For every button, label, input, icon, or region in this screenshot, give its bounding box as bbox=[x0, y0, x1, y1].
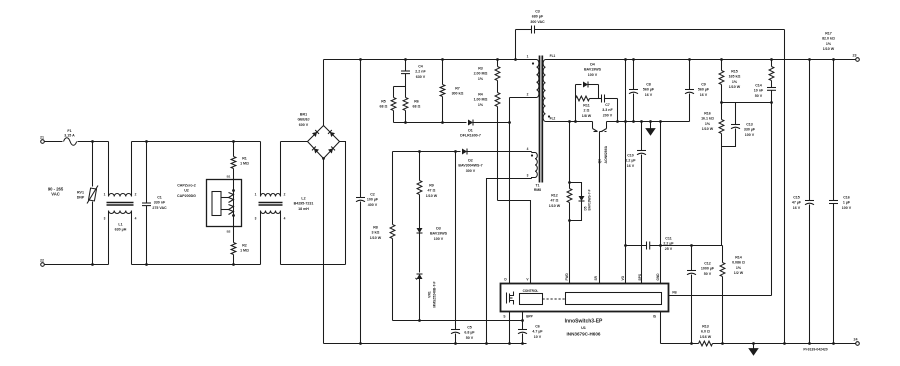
svg-text:RM8: RM8 bbox=[534, 188, 541, 192]
svg-text:630 µH: 630 µH bbox=[115, 228, 127, 232]
wire primary return rail bbox=[324, 343, 527, 345]
svg-text:B1: B1 bbox=[227, 175, 231, 179]
svg-text:F1: F1 bbox=[67, 129, 71, 133]
svg-text:3: 3 bbox=[255, 217, 257, 221]
svg-text:B2: B2 bbox=[227, 230, 231, 234]
svg-text:DNP: DNP bbox=[77, 196, 85, 200]
choke L1 lead 4 bbox=[132, 211, 137, 265]
diode D3 bbox=[417, 227, 448, 273]
svg-text:1/10 W: 1/10 W bbox=[702, 127, 714, 131]
svg-text:330 nF: 330 nF bbox=[154, 201, 166, 205]
wire B+ rail bbox=[324, 59, 537, 61]
svg-text:BPP: BPP bbox=[526, 315, 533, 319]
svg-text:D1: D1 bbox=[468, 129, 473, 133]
svg-text:4: 4 bbox=[527, 147, 529, 151]
transformer T1 pin 2 lead bbox=[510, 93, 537, 98]
svg-text:10 nF: 10 nF bbox=[754, 89, 764, 93]
capacitor C7 bbox=[602, 95, 618, 118]
wire J1 to fuse bbox=[45, 141, 63, 143]
svg-text:18 mH: 18 mH bbox=[298, 207, 309, 211]
capacitor C15 bbox=[792, 58, 814, 345]
svg-text:16 V: 16 V bbox=[793, 206, 801, 210]
svg-text:R11: R11 bbox=[583, 104, 589, 108]
svg-text:R5: R5 bbox=[381, 100, 386, 104]
svg-text:2: 2 bbox=[135, 193, 137, 197]
svg-text:680 pF: 680 pF bbox=[532, 15, 544, 19]
choke L1 core bbox=[107, 203, 134, 206]
svg-text:C13: C13 bbox=[746, 123, 753, 127]
label FL2 bbox=[550, 117, 556, 121]
wire FB line bbox=[771, 103, 773, 296]
transformer T1 primary winding bbox=[532, 60, 539, 98]
pin D label bbox=[504, 278, 507, 282]
svg-text:C15: C15 bbox=[793, 196, 800, 200]
svg-text:4.7 µF: 4.7 µF bbox=[532, 330, 543, 334]
svg-text:FB: FB bbox=[672, 291, 677, 295]
svg-text:630 V: 630 V bbox=[416, 75, 426, 79]
svg-text:600 V: 600 V bbox=[299, 123, 309, 127]
svg-text:23: 23 bbox=[853, 54, 857, 58]
choke L1 bottom winding bbox=[109, 211, 132, 214]
svg-text:1/2 W: 1/2 W bbox=[734, 271, 744, 275]
resistor R14 bbox=[720, 246, 745, 345]
svg-text:6.8 µF: 6.8 µF bbox=[464, 331, 475, 335]
capacitor C2 bbox=[356, 58, 379, 345]
wire snubber right bbox=[598, 85, 600, 99]
svg-text:BAV19WS-7-F: BAV19WS-7-F bbox=[588, 189, 592, 210]
svg-text:CAPZero-2: CAPZero-2 bbox=[177, 184, 196, 188]
svg-text:R2: R2 bbox=[242, 244, 247, 248]
wire FWD lower bbox=[569, 221, 571, 284]
svg-text:25 V: 25 V bbox=[665, 247, 673, 251]
capacitor C3 bbox=[516, 10, 785, 34]
svg-text:BAV3004WS-7: BAV3004WS-7 bbox=[458, 164, 482, 168]
svg-text:FL2: FL2 bbox=[550, 117, 556, 121]
svg-text:CAP200DG: CAP200DG bbox=[177, 194, 196, 198]
pin BPP bbox=[523, 312, 534, 321]
svg-text:VO: VO bbox=[621, 275, 625, 280]
svg-text:InnoSwitch3-EP: InnoSwitch3-EP bbox=[565, 319, 603, 325]
resistor R5 bbox=[380, 87, 396, 123]
wire GND pin line bbox=[659, 120, 662, 283]
choke L1 lead 3 bbox=[104, 211, 109, 265]
wire bias line bbox=[393, 150, 461, 153]
pin GND bbox=[656, 273, 660, 281]
svg-text:R13: R13 bbox=[702, 325, 709, 329]
bridge BR1 diode BR bbox=[328, 146, 335, 153]
svg-text:1 MΩ: 1 MΩ bbox=[240, 162, 249, 166]
svg-text:300 kΩ: 300 kΩ bbox=[452, 92, 464, 96]
label L2 bbox=[294, 197, 314, 211]
bridge BR1 diamond bbox=[308, 126, 340, 159]
svg-text:1: 1 bbox=[104, 193, 106, 197]
svg-text:PI-9139-042420: PI-9139-042420 bbox=[803, 348, 827, 352]
svg-text:1/10 W: 1/10 W bbox=[729, 85, 741, 89]
svg-text:C8: C8 bbox=[646, 83, 651, 87]
svg-text:1%: 1% bbox=[736, 266, 742, 270]
svg-text:GND: GND bbox=[656, 273, 660, 281]
svg-text:100 V: 100 V bbox=[745, 133, 755, 137]
svg-text:C16: C16 bbox=[843, 196, 850, 200]
resistor R13 bbox=[699, 325, 713, 346]
varistor RV1 bbox=[77, 142, 98, 265]
wire FL1 output rail bbox=[546, 59, 856, 61]
svg-text:VAC: VAC bbox=[51, 192, 60, 197]
CAPZero U2 internals bbox=[212, 175, 235, 234]
choke L2 lead 2 bbox=[281, 142, 286, 197]
svg-text:Q1: Q1 bbox=[598, 159, 602, 164]
capacitor C1 bbox=[142, 140, 167, 266]
svg-text:R4: R4 bbox=[478, 93, 483, 97]
resistor R1 bbox=[231, 142, 249, 180]
capacitor C8 bbox=[629, 58, 655, 123]
svg-text:275 VAC: 275 VAC bbox=[152, 206, 167, 210]
wire drain line D pin bbox=[509, 98, 511, 284]
choke L2 bottom winding bbox=[261, 211, 281, 214]
svg-text:2.2 µF: 2.2 µF bbox=[663, 242, 674, 246]
svg-text:16 V: 16 V bbox=[627, 164, 635, 168]
svg-text:U1: U1 bbox=[581, 326, 586, 330]
svg-text:6.0 Ω: 6.0 Ω bbox=[701, 330, 710, 334]
transformer T1 secondary winding bbox=[543, 60, 550, 122]
bridge BR1 diode BL bbox=[312, 146, 319, 153]
IC U1 mosfet glyph bbox=[507, 292, 514, 305]
transformer T1 pin 3 lead bbox=[527, 174, 535, 179]
svg-text:R6: R6 bbox=[414, 100, 419, 104]
svg-text:1.00 MΩ: 1.00 MΩ bbox=[474, 98, 488, 102]
svg-text:R8: R8 bbox=[373, 226, 378, 230]
bridge BR1 diode TL bbox=[312, 130, 319, 137]
svg-text:MMSZ5248B-7-F: MMSZ5248B-7-F bbox=[433, 281, 437, 307]
wire BPS pin line bbox=[637, 120, 646, 283]
svg-text:4: 4 bbox=[135, 217, 137, 221]
svg-text:330 µF: 330 µF bbox=[744, 128, 756, 132]
node R1 top bbox=[232, 140, 235, 143]
svg-text:200 V: 200 V bbox=[603, 113, 613, 117]
svg-text:560 µF: 560 µF bbox=[643, 88, 655, 92]
zener VR1 bbox=[416, 274, 437, 322]
svg-text:C3: C3 bbox=[535, 10, 540, 14]
pin V label bbox=[526, 278, 529, 282]
resistor R6 bbox=[403, 87, 420, 124]
svg-text:2.00 MΩ: 2.00 MΩ bbox=[474, 72, 488, 76]
pin IS bbox=[653, 312, 661, 344]
gnd symbol output bbox=[749, 342, 758, 355]
svg-text:300 V: 300 V bbox=[466, 169, 476, 173]
wire secondary return rail right bbox=[713, 343, 856, 345]
svg-text:R17: R17 bbox=[825, 32, 832, 36]
label PI number bbox=[803, 348, 827, 352]
svg-text:R1: R1 bbox=[242, 157, 247, 161]
svg-text:50 V: 50 V bbox=[704, 272, 712, 276]
wire fuse to L1 bbox=[78, 141, 109, 143]
pin FB bbox=[669, 291, 772, 296]
capacitor C9 bbox=[685, 58, 710, 121]
svg-text:1000 µF: 1000 µF bbox=[701, 267, 715, 271]
wire bias return bbox=[485, 179, 531, 345]
IC U1 box bbox=[501, 284, 669, 312]
svg-text:B4295-7231: B4295-7231 bbox=[294, 202, 314, 206]
label U1 bbox=[565, 319, 603, 337]
terminal J1 (21) bbox=[40, 136, 44, 144]
svg-text:3.3 nF: 3.3 nF bbox=[602, 108, 613, 112]
resistor R9 bbox=[417, 152, 438, 229]
svg-text:U2: U2 bbox=[184, 189, 189, 193]
svg-text:300 VAC: 300 VAC bbox=[530, 20, 545, 24]
SR FET Q1 bbox=[593, 122, 609, 284]
svg-text:3.15 A: 3.15 A bbox=[64, 134, 75, 138]
label C10 bbox=[625, 154, 636, 168]
wire bottom rail L1 to L2 bbox=[132, 264, 261, 266]
svg-text:C6: C6 bbox=[535, 325, 540, 329]
svg-text:400 V: 400 V bbox=[368, 203, 378, 207]
capacitor C14 bbox=[754, 81, 776, 103]
svg-text:D4: D4 bbox=[590, 63, 595, 67]
svg-text:4: 4 bbox=[284, 217, 286, 221]
wire snubber left bbox=[575, 85, 577, 122]
wire top rail L1 to L2 bbox=[132, 141, 261, 143]
bridge BR1 diode TR bbox=[328, 130, 335, 137]
svg-text:1%: 1% bbox=[826, 42, 832, 46]
choke L2 top winding bbox=[261, 194, 281, 197]
svg-text:16 V: 16 V bbox=[645, 93, 653, 97]
svg-text:82.0 kΩ: 82.0 kΩ bbox=[822, 37, 835, 41]
svg-text:D: D bbox=[504, 278, 507, 282]
svg-text:INN3679C-H606: INN3679C-H606 bbox=[567, 332, 601, 337]
svg-text:100 V: 100 V bbox=[588, 73, 598, 77]
node input top bbox=[91, 140, 94, 143]
svg-text:BR1: BR1 bbox=[300, 113, 307, 117]
resistor R15 bbox=[719, 58, 741, 104]
svg-text:AON6286A: AON6286A bbox=[604, 145, 608, 163]
svg-text:1%: 1% bbox=[732, 80, 738, 84]
resistor R11 bbox=[576, 96, 602, 118]
svg-text:C7: C7 bbox=[605, 103, 610, 107]
svg-text:GBU8J: GBU8J bbox=[298, 118, 310, 122]
gnd symbol secondary bus bbox=[646, 120, 655, 135]
capacitor C16 bbox=[829, 58, 852, 345]
svg-text:16 V: 16 V bbox=[700, 93, 708, 97]
svg-text:C9: C9 bbox=[701, 83, 706, 87]
svg-text:68 Ω: 68 Ω bbox=[413, 105, 421, 109]
IC U1 secondary block bbox=[566, 293, 662, 305]
transformer T1 core bbox=[540, 56, 543, 183]
capacitor C5 bbox=[451, 152, 475, 345]
resistor R2 bbox=[231, 227, 249, 266]
svg-text:1/10 W: 1/10 W bbox=[549, 204, 561, 208]
transformer T1 bias winding bbox=[531, 153, 537, 178]
choke L1 lead 2 bbox=[132, 142, 137, 197]
svg-text:3: 3 bbox=[527, 174, 529, 178]
wire J2 bottom rail bbox=[45, 264, 109, 266]
label L1 bbox=[115, 223, 127, 232]
resistor R4 bbox=[474, 93, 500, 201]
svg-text:2.2 nF: 2.2 nF bbox=[415, 70, 426, 74]
choke L1 lead 1 bbox=[104, 142, 109, 197]
svg-text:C2: C2 bbox=[370, 193, 375, 197]
diode D2 bbox=[458, 149, 531, 173]
label T1 bbox=[534, 184, 541, 193]
svg-text:1 µF: 1 µF bbox=[843, 201, 851, 205]
svg-text:1/10 W: 1/10 W bbox=[370, 236, 382, 240]
svg-text:2: 2 bbox=[284, 193, 286, 197]
wire bridge right vertex drop bbox=[340, 142, 346, 265]
wire snubber to gnd bbox=[616, 99, 619, 123]
wire bridge bottom to gnd rail bbox=[322, 157, 325, 343]
svg-text:C10: C10 bbox=[627, 154, 634, 158]
svg-text:1/10 W: 1/10 W bbox=[823, 47, 835, 51]
svg-text:3 kΩ: 3 kΩ bbox=[372, 231, 380, 235]
svg-text:24: 24 bbox=[854, 338, 858, 342]
wire R5 R6 top bar bbox=[394, 86, 406, 88]
label FL1 bbox=[550, 54, 556, 58]
svg-text:D2: D2 bbox=[468, 159, 473, 163]
svg-text:1 MΩ: 1 MΩ bbox=[240, 249, 249, 253]
svg-text:R9: R9 bbox=[429, 184, 434, 188]
label BR1 bbox=[298, 113, 310, 127]
svg-text:0.086 Ω: 0.086 Ω bbox=[732, 261, 745, 265]
svg-text:C4: C4 bbox=[418, 65, 423, 69]
svg-text:50 V: 50 V bbox=[755, 94, 763, 98]
wire C3 left drop bbox=[514, 30, 517, 61]
wire bridge top to B+ rail bbox=[323, 60, 325, 126]
terminal J4 (24) bbox=[854, 338, 860, 346]
svg-text:100 V: 100 V bbox=[434, 237, 444, 241]
svg-text:1/16 W: 1/16 W bbox=[700, 335, 712, 339]
wire secondary gnd bus bbox=[607, 121, 690, 123]
svg-text:T1: T1 bbox=[536, 184, 540, 188]
pin S bbox=[503, 312, 510, 345]
wire FL2 rail bbox=[546, 120, 593, 123]
svg-text:47 µF: 47 µF bbox=[792, 201, 802, 205]
wire FWD upper bbox=[568, 122, 571, 184]
capacitor C12 bbox=[687, 246, 715, 345]
choke L1 top winding bbox=[109, 194, 132, 197]
svg-text:2 Ω: 2 Ω bbox=[584, 109, 590, 113]
svg-text:R15: R15 bbox=[731, 70, 738, 74]
capacitor C11 bbox=[647, 237, 723, 251]
resistor R8 bbox=[370, 152, 395, 321]
capacitor C6 bbox=[518, 321, 543, 345]
svg-text:R12: R12 bbox=[551, 194, 558, 198]
choke L2 lead 4 bbox=[281, 211, 286, 265]
pin BPS bbox=[638, 274, 642, 281]
svg-text:22: 22 bbox=[40, 259, 44, 263]
wire VOUT pin line bbox=[624, 58, 627, 283]
capacitor C13 bbox=[722, 103, 756, 147]
svg-text:V: V bbox=[526, 278, 529, 282]
svg-text:C12: C12 bbox=[704, 262, 711, 266]
svg-text:VR1: VR1 bbox=[428, 291, 432, 298]
wire sense bar bbox=[624, 244, 646, 247]
svg-text:FL1: FL1 bbox=[550, 54, 556, 58]
svg-text:D3: D3 bbox=[436, 227, 441, 231]
resistor R3 bbox=[474, 58, 500, 92]
svg-text:2.2 µF: 2.2 µF bbox=[625, 159, 636, 163]
capacitor C4 bbox=[401, 58, 426, 86]
transformer T1 pin 4 lead bbox=[527, 147, 535, 153]
label input voltage bbox=[48, 187, 64, 197]
wire V pin jog bbox=[498, 201, 531, 284]
fuse F1 bbox=[64, 129, 77, 145]
choke L2 lead 3 bbox=[255, 211, 261, 265]
svg-text:1: 1 bbox=[527, 55, 529, 59]
svg-text:R14: R14 bbox=[735, 256, 742, 260]
diode D5 bbox=[570, 183, 592, 221]
svg-text:21: 21 bbox=[40, 136, 44, 140]
svg-text:SR: SR bbox=[594, 275, 598, 280]
svg-text:47 Ω: 47 Ω bbox=[428, 189, 436, 193]
svg-text:BAV19WS: BAV19WS bbox=[584, 68, 602, 72]
svg-text:68 Ω: 68 Ω bbox=[380, 105, 388, 109]
terminal J3 (23) bbox=[853, 54, 860, 62]
svg-text:100 V: 100 V bbox=[842, 206, 852, 210]
svg-text:3: 3 bbox=[104, 217, 106, 221]
svg-text:FWD: FWD bbox=[565, 273, 569, 281]
svg-text:1/8 W: 1/8 W bbox=[582, 114, 592, 118]
svg-text:1: 1 bbox=[255, 193, 257, 197]
svg-text:C14: C14 bbox=[755, 84, 762, 88]
svg-text:165 kΩ: 165 kΩ bbox=[729, 75, 741, 79]
svg-text:L1: L1 bbox=[118, 223, 122, 227]
wire clamp bottom bar bbox=[394, 122, 467, 124]
IC U1 control block bbox=[520, 289, 543, 305]
svg-text:L2: L2 bbox=[301, 197, 305, 201]
svg-text:C1: C1 bbox=[157, 196, 162, 200]
svg-text:C5: C5 bbox=[467, 326, 472, 330]
diode D1 bbox=[460, 120, 511, 138]
choke L2 core bbox=[259, 203, 283, 206]
svg-text:1%: 1% bbox=[478, 77, 484, 81]
choke L2 lead 1 bbox=[255, 142, 261, 197]
svg-text:1/10 W: 1/10 W bbox=[426, 194, 438, 198]
label U2 CAPZero bbox=[177, 184, 196, 198]
pin VO bbox=[621, 275, 625, 280]
svg-text:BAV19WS: BAV19WS bbox=[430, 232, 448, 236]
svg-text:100 µF: 100 µF bbox=[367, 198, 379, 202]
svg-text:50 V: 50 V bbox=[466, 336, 474, 340]
svg-text:CONTROL: CONTROL bbox=[523, 289, 539, 293]
svg-text:1%: 1% bbox=[705, 122, 711, 126]
svg-text:47 Ω: 47 Ω bbox=[551, 199, 559, 203]
wire C3 right drop bbox=[783, 30, 786, 345]
wire divider to sense bar bbox=[721, 147, 723, 246]
svg-text:RV1: RV1 bbox=[77, 191, 84, 195]
svg-text:R3: R3 bbox=[478, 67, 483, 71]
svg-text:560 µF: 560 µF bbox=[698, 88, 710, 92]
wire L2 to bridge left vertex bbox=[281, 141, 308, 143]
wire FB node bar bbox=[722, 101, 773, 104]
svg-text:R7: R7 bbox=[455, 87, 460, 91]
pin SR bbox=[594, 275, 598, 280]
svg-text:C11: C11 bbox=[665, 237, 671, 241]
resistor R12 bbox=[549, 183, 572, 222]
resistor R17 bbox=[769, 32, 835, 81]
svg-text:IS: IS bbox=[653, 315, 656, 319]
svg-text:2: 2 bbox=[527, 93, 529, 97]
node input bottom bbox=[91, 263, 94, 266]
pin FWD bbox=[565, 273, 569, 281]
svg-text:DFLR1600-7: DFLR1600-7 bbox=[460, 134, 481, 138]
CAPZero U2 box bbox=[207, 180, 242, 227]
terminal J2 (22) bbox=[40, 259, 44, 267]
wire secondary return rail left bbox=[661, 343, 699, 345]
svg-text:1%: 1% bbox=[478, 103, 484, 107]
resistor R16 bbox=[701, 103, 724, 147]
IC U1 dashed link bbox=[543, 298, 566, 300]
svg-text:S: S bbox=[503, 315, 505, 319]
diode D4 bbox=[576, 63, 602, 88]
